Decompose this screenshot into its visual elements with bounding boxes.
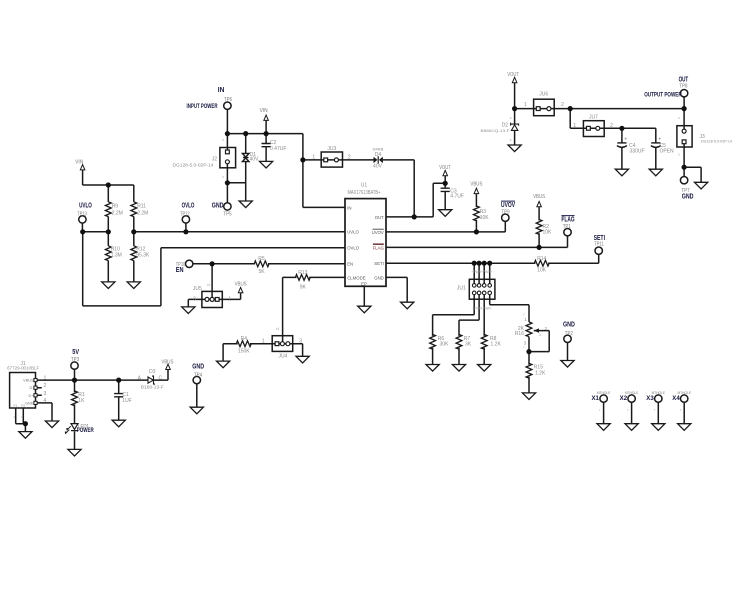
svg-text:2: 2 <box>44 383 47 389</box>
svg-text:JU6: JU6 <box>539 92 548 98</box>
svg-text:95.3K: 95.3K <box>136 253 150 259</box>
svg-text:1UF: 1UF <box>122 398 131 404</box>
svg-text:TP12: TP12 <box>180 211 190 217</box>
svg-text:3: 3 <box>299 338 302 344</box>
svg-text:3: 3 <box>44 391 47 397</box>
svg-text:TP10: TP10 <box>176 262 186 268</box>
svg-text:3K: 3K <box>465 342 472 348</box>
svg-text:C: C <box>158 375 162 381</box>
svg-text:UVLO: UVLO <box>79 200 92 209</box>
svg-text:MAX17613BATB+: MAX17613BATB+ <box>348 190 381 196</box>
svg-text:DG128-5.0-02P-14: DG128-5.0-02P-14 <box>701 139 733 144</box>
svg-text:IN: IN <box>218 85 225 94</box>
svg-text:10K: 10K <box>543 230 553 236</box>
svg-text:R4: R4 <box>241 336 248 342</box>
svg-text:10K: 10K <box>537 268 547 274</box>
svg-text:D4: D4 <box>375 152 382 158</box>
svg-text:B560CQ-13-F: B560CQ-13-F <box>481 128 511 133</box>
svg-text:GND: GND <box>374 275 384 280</box>
svg-text:330UF: 330UF <box>630 148 645 154</box>
svg-text:TP11: TP11 <box>594 242 604 248</box>
svg-text:OVLO: OVLO <box>347 246 360 251</box>
svg-text:TP5: TP5 <box>223 211 231 217</box>
svg-text:+: + <box>624 137 627 143</box>
svg-text:VBUS: VBUS <box>23 379 34 383</box>
svg-text:TP2: TP2 <box>565 331 573 337</box>
svg-text:JU1: JU1 <box>457 286 466 292</box>
svg-text:VIN: VIN <box>75 159 83 165</box>
svg-text:X1: X1 <box>592 396 600 402</box>
svg-text:JU7: JU7 <box>589 115 598 121</box>
svg-text:1: 1 <box>262 338 265 344</box>
svg-text:OVLO: OVLO <box>182 200 195 209</box>
svg-text:40V: 40V <box>373 164 383 170</box>
svg-text:+: + <box>658 137 661 143</box>
svg-text:X2: X2 <box>620 396 628 402</box>
svg-text:VIN: VIN <box>260 108 268 114</box>
svg-text:TP1: TP1 <box>563 224 571 230</box>
svg-text:X4: X4 <box>672 396 680 402</box>
svg-text:+PWR-PWR-: +PWR-PWR- <box>472 307 492 311</box>
svg-text:OUTPUT POWER: OUTPUT POWER <box>644 92 682 99</box>
svg-text:1: 1 <box>312 154 315 160</box>
svg-text:D3: D3 <box>149 369 156 375</box>
svg-text:TP8: TP8 <box>679 84 687 90</box>
svg-text:1: 1 <box>573 123 576 129</box>
svg-text:EP: EP <box>361 281 367 286</box>
svg-text:2.2M: 2.2M <box>137 211 148 217</box>
svg-text:VBUS: VBUS <box>533 194 545 200</box>
svg-text:TP13: TP13 <box>77 211 87 217</box>
svg-text:1: 1 <box>539 333 541 337</box>
svg-text:30K: 30K <box>440 342 450 348</box>
svg-text:OUT: OUT <box>679 75 689 84</box>
svg-text:1: 1 <box>524 102 527 108</box>
svg-text:2: 2 <box>561 102 564 108</box>
svg-text:VBUS: VBUS <box>161 359 173 365</box>
svg-text:D+: D+ <box>29 394 35 398</box>
svg-text:TP7: TP7 <box>681 188 689 194</box>
svg-text:5V: 5V <box>72 347 79 356</box>
svg-text:2: 2 <box>348 154 351 160</box>
svg-text:INPUT POWER: INPUT POWER <box>187 103 218 110</box>
svg-text:67729-0010BLF: 67729-0010BLF <box>7 365 39 370</box>
svg-text:150K: 150K <box>238 349 250 355</box>
svg-text:TP9: TP9 <box>501 209 509 215</box>
svg-text:R14: R14 <box>537 256 546 262</box>
svg-text:1.2K: 1.2K <box>535 371 546 377</box>
svg-text:LED1: LED1 <box>78 424 89 430</box>
svg-text:2: 2 <box>610 123 613 129</box>
svg-text:VBUS: VBUS <box>470 181 482 187</box>
svg-text:DG128-5.0-02P-14: DG128-5.0-02P-14 <box>173 162 215 167</box>
svg-text:JU4: JU4 <box>278 353 287 359</box>
svg-text:UVLO: UVLO <box>347 230 359 235</box>
svg-text:10K: 10K <box>480 215 490 221</box>
svg-text:r4: r4 <box>207 283 210 287</box>
svg-text:R16: R16 <box>515 331 524 337</box>
svg-text:4: 4 <box>44 398 47 404</box>
svg-text:P2: P2 <box>21 404 25 408</box>
svg-text:1.2K: 1.2K <box>491 342 502 348</box>
svg-text:40V: 40V <box>250 157 260 163</box>
svg-text:+PWR+PWR+: +PWR+PWR+ <box>471 270 492 274</box>
svg-text:P1: P1 <box>14 404 18 408</box>
svg-text:2.2M: 2.2M <box>112 211 123 217</box>
svg-text:GND: GND <box>25 401 34 405</box>
svg-text:TP4: TP4 <box>194 372 202 378</box>
svg-text:U1: U1 <box>361 183 368 189</box>
svg-text:GND: GND <box>212 200 224 209</box>
svg-text:VOUT: VOUT <box>507 72 519 78</box>
svg-text:CLMODE: CLMODE <box>347 275 366 280</box>
svg-text:EN: EN <box>347 262 353 267</box>
svg-text:VOUT: VOUT <box>439 165 451 171</box>
svg-text:MTHOLE: MTHOLE <box>652 390 666 395</box>
svg-text:GND: GND <box>563 319 575 328</box>
svg-text:R5: R5 <box>258 256 265 262</box>
svg-text:0.47UF: 0.47UF <box>270 146 286 152</box>
svg-text:GND: GND <box>192 361 204 370</box>
svg-text:1: 1 <box>228 296 231 302</box>
svg-text:SETI: SETI <box>594 233 605 242</box>
svg-text:B160-13-F: B160-13-F <box>141 385 164 390</box>
svg-text:SETI: SETI <box>374 261 384 266</box>
svg-text:5K: 5K <box>258 269 265 275</box>
svg-text:OUT: OUT <box>375 215 384 220</box>
svg-text:R13: R13 <box>298 270 307 276</box>
svg-text:1: 1 <box>44 375 47 381</box>
svg-text:TP6: TP6 <box>224 97 232 103</box>
svg-text:4.7UF: 4.7UF <box>450 194 464 200</box>
svg-text:IN: IN <box>347 205 351 210</box>
svg-text:MTHOLE: MTHOLE <box>678 390 692 395</box>
svg-text:MTHOLE: MTHOLE <box>625 390 639 395</box>
svg-text:JU5: JU5 <box>193 286 202 292</box>
svg-text:TP3: TP3 <box>71 357 79 363</box>
svg-text:OPEN: OPEN <box>660 148 675 154</box>
svg-text:UVOV: UVOV <box>372 230 384 235</box>
svg-text:VBUS: VBUS <box>235 282 247 288</box>
svg-text:R11: R11 <box>137 204 146 210</box>
svg-text:R9: R9 <box>112 204 119 210</box>
svg-text:MTHOLE: MTHOLE <box>597 390 611 395</box>
svg-text:3: 3 <box>193 296 196 302</box>
svg-text:1K: 1K <box>78 398 85 404</box>
svg-text:1.3M: 1.3M <box>111 253 122 259</box>
svg-text:D4RB: D4RB <box>373 146 384 151</box>
svg-text:r4: r4 <box>276 327 279 331</box>
svg-text:FLAG: FLAG <box>373 245 385 250</box>
svg-text:X3: X3 <box>646 396 654 402</box>
svg-text:9K: 9K <box>300 284 307 290</box>
svg-text:JU3: JU3 <box>327 146 336 152</box>
